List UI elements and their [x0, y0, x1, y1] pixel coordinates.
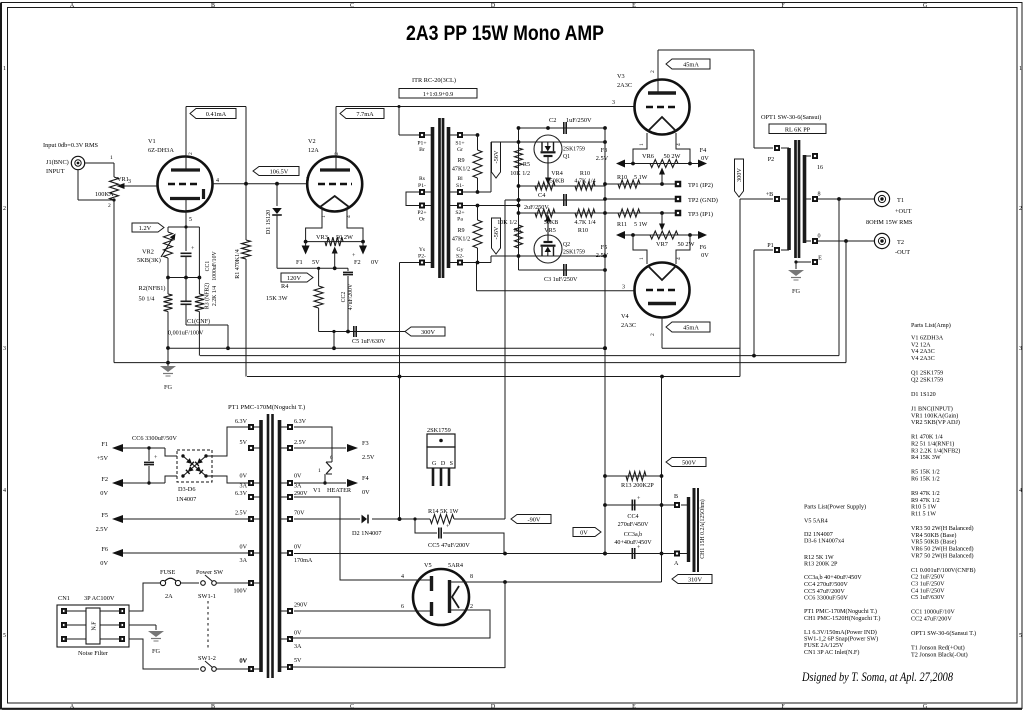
svg-text:FG: FG	[792, 288, 801, 295]
svg-text:RL 6K PP: RL 6K PP	[785, 127, 811, 134]
svg-text:5V: 5V	[312, 259, 320, 266]
svg-text:2A3 PP 15W Mono AMP: 2A3 PP 15W Mono AMP	[406, 21, 604, 45]
svg-text:C3 1uF/250V: C3 1uF/250V	[544, 277, 578, 283]
svg-text:A: A	[70, 704, 75, 710]
svg-text:VR5: VR5	[544, 228, 556, 234]
svg-text:-56V: -56V	[493, 226, 500, 239]
svg-text:FUSE: FUSE	[160, 569, 176, 576]
svg-text:VR3 50 2W(H Balanced): VR3 50 2W(H Balanced)	[911, 525, 974, 532]
svg-text:0V: 0V	[371, 259, 379, 266]
svg-text:F2: F2	[101, 476, 108, 483]
svg-text:5: 5	[1019, 633, 1022, 639]
svg-text:Or: Or	[419, 217, 425, 223]
svg-text:R3 2.2K 1/4(NFB2): R3 2.2K 1/4(NFB2)	[911, 447, 960, 454]
svg-text:2.5V: 2.5V	[235, 511, 248, 517]
svg-text:B: B	[211, 704, 215, 710]
svg-text:3A: 3A	[294, 484, 302, 490]
svg-text:R10: R10	[617, 175, 627, 181]
svg-text:2SK1759: 2SK1759	[563, 147, 585, 153]
svg-text:V1: V1	[313, 487, 321, 494]
svg-text:2A3C: 2A3C	[617, 82, 632, 89]
svg-text:V5 5AR4: V5 5AR4	[804, 518, 828, 524]
svg-text:R11 5 1W: R11 5 1W	[911, 512, 936, 518]
svg-text:1: 1	[3, 66, 6, 72]
svg-text:CC6 3300uF/50V: CC6 3300uF/50V	[132, 435, 177, 442]
svg-text:5: 5	[189, 217, 192, 223]
svg-text:A: A	[674, 561, 679, 567]
svg-text:VR6 50 2W(H Balanced): VR6 50 2W(H Balanced)	[911, 546, 974, 553]
svg-text:G D S: G D S	[432, 461, 455, 467]
svg-text:P2+: P2+	[417, 210, 426, 216]
svg-text:5: 5	[3, 633, 6, 639]
svg-text:Q1 2SK1759: Q1 2SK1759	[911, 371, 943, 377]
svg-text:290V: 290V	[294, 491, 308, 497]
svg-text:Br: Br	[419, 147, 425, 153]
svg-text:Ys: Ys	[419, 247, 426, 253]
svg-text:R10: R10	[580, 171, 590, 177]
svg-text:L1 6.3V/150mA(Power IND): L1 6.3V/150mA(Power IND)	[804, 629, 877, 636]
svg-text:6Z-DH3A: 6Z-DH3A	[148, 147, 174, 154]
svg-text:FUSE 2A/125V: FUSE 2A/125V	[804, 643, 844, 649]
svg-text:3: 3	[622, 285, 625, 291]
svg-text:15K 3W: 15K 3W	[266, 295, 288, 302]
svg-text:T2: T2	[897, 239, 904, 246]
svg-text:V1 6ZDH3A: V1 6ZDH3A	[911, 336, 944, 342]
svg-text:CC3a,b: CC3a,b	[624, 532, 642, 538]
svg-text:C4: C4	[538, 192, 546, 199]
svg-text:6.3V: 6.3V	[294, 419, 307, 425]
svg-text:270uF/450V: 270uF/450V	[618, 522, 649, 528]
svg-text:R9: R9	[457, 158, 464, 164]
svg-text:70V: 70V	[294, 511, 305, 517]
svg-text:T2 Jonson Black(-Out): T2 Jonson Black(-Out)	[911, 652, 968, 659]
svg-text:1: 1	[318, 468, 321, 474]
svg-text:0V: 0V	[701, 252, 709, 259]
svg-text:S1-: S1-	[456, 183, 464, 189]
svg-text:F3: F3	[601, 147, 608, 154]
svg-text:C1(CNF): C1(CNF)	[187, 318, 210, 325]
svg-text:2: 2	[470, 604, 473, 610]
svg-text:310V: 310V	[688, 576, 702, 583]
svg-text:V4 2A3C: V4 2A3C	[911, 356, 935, 362]
svg-text:CN1: CN1	[58, 595, 70, 602]
svg-text:16: 16	[817, 165, 823, 171]
svg-text:VR6: VR6	[642, 153, 654, 160]
svg-text:1N4007: 1N4007	[176, 496, 196, 503]
svg-text:E: E	[632, 3, 636, 9]
svg-text:D3-D6: D3-D6	[178, 486, 196, 493]
svg-text:Gr: Gr	[457, 147, 463, 153]
svg-text:+OUT: +OUT	[895, 208, 912, 215]
svg-text:P1: P1	[767, 243, 773, 249]
svg-text:CC3a,b 40+40uF/450V: CC3a,b 40+40uF/450V	[804, 575, 862, 581]
svg-text:VR1 100KA(Gain): VR1 100KA(Gain)	[911, 412, 958, 419]
svg-text:10K 1/2: 10K 1/2	[510, 171, 530, 177]
svg-text:1: 1	[321, 215, 327, 218]
svg-text:5V: 5V	[240, 440, 248, 446]
svg-text:0V: 0V	[240, 474, 248, 480]
svg-text:R10 5 1W: R10 5 1W	[911, 505, 936, 511]
svg-text:7.7mA: 7.7mA	[356, 111, 374, 118]
svg-text:2.2K 1/4: 2.2K 1/4	[212, 286, 218, 306]
svg-text:Rs: Rs	[419, 176, 426, 182]
svg-text:HEATER: HEATER	[327, 487, 352, 494]
svg-text:1: 1	[639, 257, 645, 260]
svg-text:R9 47K 1/2: R9 47K 1/2	[911, 498, 940, 504]
svg-text:-56V: -56V	[493, 150, 500, 163]
svg-text:4: 4	[3, 488, 6, 494]
svg-text:2A: 2A	[165, 593, 173, 600]
svg-text:PT1 PMC-170M(Noguchi T.): PT1 PMC-170M(Noguchi T.)	[804, 608, 877, 615]
svg-text:Bl: Bl	[457, 176, 463, 182]
svg-text:4: 4	[676, 143, 682, 146]
svg-text:CC5 47uF/200V: CC5 47uF/200V	[428, 542, 470, 549]
svg-text:8: 8	[470, 574, 473, 580]
svg-text:C4 1uF/250V: C4 1uF/250V	[911, 588, 945, 594]
svg-text:A: A	[70, 3, 75, 9]
svg-text:2SK1759: 2SK1759	[427, 427, 451, 434]
svg-text:P2: P2	[768, 157, 774, 163]
svg-text:D: D	[491, 704, 496, 710]
svg-text:F3: F3	[362, 440, 369, 447]
svg-text:3A: 3A	[294, 644, 302, 650]
svg-text:VR2 5KB(VP ADJ): VR2 5KB(VP ADJ)	[911, 419, 960, 426]
svg-text:N.F: N.F	[92, 621, 98, 631]
svg-text:10K 1/2: 10K 1/2	[497, 220, 517, 226]
svg-text:0V: 0V	[294, 474, 302, 480]
svg-text:V4: V4	[621, 313, 630, 320]
svg-text:CN1 3P AC Inlet(N.F): CN1 3P AC Inlet(N.F)	[804, 649, 859, 656]
svg-text:R1 470K 1/4: R1 470K 1/4	[911, 435, 943, 441]
svg-text:SW1-1,2 6P Snap(Power SW): SW1-1,2 6P Snap(Power SW)	[804, 636, 878, 643]
svg-text:0V: 0V	[240, 545, 248, 551]
svg-text:VR7: VR7	[656, 241, 668, 248]
svg-text:R3 (NFB2): R3 (NFB2)	[204, 283, 211, 309]
svg-text:C: C	[350, 704, 354, 710]
svg-text:3P AC100V: 3P AC100V	[84, 595, 115, 602]
svg-text:4: 4	[346, 215, 352, 218]
svg-text:-OUT: -OUT	[895, 249, 910, 256]
svg-text:R10: R10	[578, 228, 588, 234]
svg-text:S2+: S2+	[455, 210, 464, 216]
svg-text:106.5V: 106.5V	[270, 168, 289, 175]
svg-text:V4 2A3C: V4 2A3C	[911, 349, 935, 355]
svg-text:F1: F1	[101, 441, 108, 448]
svg-text:R11: R11	[617, 222, 627, 228]
svg-text:TP3 (IP1): TP3 (IP1)	[688, 211, 713, 218]
svg-text:C3 1uF/250V: C3 1uF/250V	[911, 582, 945, 588]
svg-text:G: G	[923, 704, 928, 710]
svg-text:2SK1759: 2SK1759	[563, 250, 585, 256]
svg-text:Q2 2SK1759: Q2 2SK1759	[911, 377, 943, 383]
svg-text:8: 8	[817, 192, 820, 198]
svg-text:47K1/2: 47K1/2	[452, 237, 470, 243]
svg-text:VR3: VR3	[316, 234, 328, 241]
svg-text:E: E	[818, 256, 822, 262]
svg-text:50 2W: 50 2W	[336, 234, 353, 241]
svg-text:3A: 3A	[240, 484, 248, 490]
svg-text:P1-: P1-	[418, 183, 426, 189]
svg-text:P1+: P1+	[417, 141, 426, 147]
svg-text:2.5V: 2.5V	[294, 440, 307, 446]
svg-text:VR4 50KB (Base): VR4 50KB (Base)	[911, 532, 956, 539]
svg-text:100V: 100V	[233, 589, 247, 595]
svg-text:2.5V: 2.5V	[362, 454, 375, 461]
svg-text:0,001uF/100V: 0,001uF/100V	[168, 331, 204, 337]
svg-text:Gy: Gy	[457, 247, 464, 253]
svg-text:V2 12A: V2 12A	[911, 342, 931, 348]
svg-text:50 1/4: 50 1/4	[139, 296, 156, 303]
svg-text:Dsigned by T. Soma, at Apl. 27: Dsigned by T. Soma, at Apl. 27,2008	[801, 669, 953, 684]
svg-text:R2 51 1/4(RNF1): R2 51 1/4(RNF1)	[911, 441, 954, 448]
svg-text:V2: V2	[308, 138, 316, 145]
svg-text:3A: 3A	[240, 558, 248, 564]
svg-text:R6 15K 1/2: R6 15K 1/2	[911, 477, 940, 483]
svg-text:T1 Jonson Red(+Out): T1 Jonson Red(+Out)	[911, 645, 965, 652]
svg-text:INPUT: INPUT	[46, 168, 65, 175]
svg-text:0.41mA: 0.41mA	[206, 111, 227, 118]
svg-text:2A3C: 2A3C	[621, 322, 636, 329]
svg-text:CC1: CC1	[205, 261, 211, 272]
svg-text:1: 1	[1019, 66, 1022, 72]
svg-text:R14 5K 1W: R14 5K 1W	[428, 508, 458, 515]
svg-text:5 1W: 5 1W	[634, 175, 648, 181]
svg-text:0V: 0V	[362, 489, 370, 496]
svg-text:CC2 47uF/200V: CC2 47uF/200V	[911, 617, 952, 623]
svg-text:47K1/2: 47K1/2	[452, 167, 470, 173]
svg-text:VR7 50 2W(H Balanced): VR7 50 2W(H Balanced)	[911, 552, 974, 559]
svg-text:120V: 120V	[287, 275, 301, 282]
svg-text:5 1W: 5 1W	[634, 222, 648, 228]
svg-text:F4: F4	[700, 147, 708, 154]
svg-text:5V: 5V	[294, 658, 302, 664]
svg-text:E: E	[632, 704, 636, 710]
svg-text:T1: T1	[897, 197, 904, 204]
svg-text:CC6 3300uF/50V: CC6 3300uF/50V	[804, 596, 848, 602]
svg-text:50 2W: 50 2W	[678, 241, 695, 248]
svg-text:4: 4	[401, 574, 404, 580]
svg-text:Power SW: Power SW	[196, 569, 223, 576]
svg-text:PT1 PMC-170M(Noguchi T.): PT1 PMC-170M(Noguchi T.)	[228, 404, 305, 411]
svg-text:2.5V: 2.5V	[596, 252, 609, 259]
svg-text:2: 2	[650, 333, 656, 336]
svg-text:SW1-1: SW1-1	[198, 593, 216, 600]
svg-text:R13 200K 2P: R13 200K 2P	[804, 562, 838, 568]
svg-text:50 2W: 50 2W	[664, 153, 681, 160]
svg-text:1+1:0.9+0.9: 1+1:0.9+0.9	[423, 91, 453, 98]
svg-text:6: 6	[401, 604, 404, 610]
svg-text:CC4: CC4	[627, 514, 638, 520]
svg-text:40+40uF/450V: 40+40uF/450V	[614, 540, 652, 546]
svg-text:1.2V: 1.2V	[139, 225, 152, 232]
svg-text:S2-: S2-	[456, 254, 464, 260]
svg-text:2.5V: 2.5V	[596, 155, 609, 162]
svg-text:VR2: VR2	[142, 249, 154, 256]
svg-text:5AR4: 5AR4	[448, 562, 464, 569]
svg-text:4: 4	[1019, 488, 1022, 494]
svg-text:Input 0db=0.3V RMS: Input 0db=0.3V RMS	[43, 142, 99, 149]
svg-text:R9 47K 1/2: R9 47K 1/2	[911, 491, 940, 497]
svg-text:V1: V1	[148, 138, 156, 145]
svg-text:F5: F5	[601, 244, 608, 251]
svg-text:3: 3	[1019, 346, 1022, 352]
svg-text:F6: F6	[101, 546, 108, 553]
svg-text:300V: 300V	[736, 168, 743, 182]
svg-text:B: B	[211, 3, 215, 9]
svg-text:1000uF/10V: 1000uF/10V	[212, 251, 218, 281]
svg-text:50KB: 50KB	[544, 220, 559, 226]
svg-text:Q2: Q2	[563, 242, 570, 248]
svg-text:4.7K 1/4: 4.7K 1/4	[574, 179, 595, 185]
svg-text:0V: 0V	[100, 490, 108, 497]
svg-text:2: 2	[3, 206, 6, 212]
svg-text:2: 2	[650, 70, 656, 73]
svg-text:5KB(3K): 5KB(3K)	[137, 257, 161, 264]
svg-text:FG: FG	[164, 384, 173, 391]
svg-text:12A: 12A	[308, 147, 319, 154]
svg-text:P2-: P2-	[418, 254, 426, 260]
svg-text:3: 3	[612, 100, 615, 106]
svg-text:4.7K 1/4: 4.7K 1/4	[574, 220, 595, 226]
svg-text:VR4: VR4	[551, 171, 563, 177]
svg-text:170mA: 170mA	[294, 558, 313, 564]
svg-text:+5V: +5V	[97, 455, 109, 462]
svg-text:B: B	[674, 494, 678, 500]
svg-text:CC4 270uF/500V: CC4 270uF/500V	[804, 582, 848, 588]
svg-text:C5 1uF/630V: C5 1uF/630V	[911, 595, 945, 601]
svg-text:+B: +B	[766, 192, 774, 198]
svg-text:Pa: Pa	[457, 217, 463, 223]
svg-text:0V: 0V	[701, 155, 709, 162]
svg-text:CH1 PMC-1520H(Noguchi T.): CH1 PMC-1520H(Noguchi T.)	[804, 615, 880, 622]
svg-text:R2(NFB1): R2(NFB1)	[139, 285, 166, 292]
svg-text:1: 1	[110, 155, 113, 161]
svg-text:0V: 0V	[100, 560, 108, 567]
svg-text:3: 3	[3, 346, 6, 352]
svg-text:3: 3	[306, 177, 309, 183]
svg-text:R1 470K1/4: R1 470K1/4	[235, 249, 241, 279]
svg-text:0V: 0V	[240, 659, 248, 665]
svg-text:2: 2	[188, 152, 194, 155]
svg-text:G: G	[923, 3, 928, 9]
svg-text:C2: C2	[549, 117, 556, 124]
svg-text:FG: FG	[152, 648, 161, 655]
svg-text:Parts List(Power Supply): Parts List(Power Supply)	[804, 504, 866, 511]
svg-text:45mA: 45mA	[683, 324, 699, 331]
svg-text:C1 0.001uF/100V(CNFB): C1 0.001uF/100V(CNFB)	[911, 567, 976, 574]
svg-text:R5: R5	[523, 162, 530, 168]
svg-text:2: 2	[334, 152, 340, 155]
svg-text:0V: 0V	[294, 631, 302, 637]
svg-text:50KB: 50KB	[550, 179, 565, 185]
svg-text:D: D	[491, 3, 496, 9]
svg-text:J1(BNC): J1(BNC)	[46, 159, 69, 166]
svg-text:0: 0	[817, 234, 820, 240]
svg-text:SW1-2: SW1-2	[198, 655, 216, 662]
svg-text:R12 5K 1W: R12 5K 1W	[804, 555, 834, 561]
svg-text:C2 1uF/250V: C2 1uF/250V	[911, 575, 945, 581]
svg-text:F6: F6	[700, 244, 707, 251]
svg-text:6: 6	[330, 455, 333, 461]
svg-text:V3: V3	[617, 73, 625, 80]
svg-text:OPT1 SW-30-6(Sansui T.): OPT1 SW-30-6(Sansui T.)	[911, 630, 976, 637]
svg-text:4: 4	[676, 257, 682, 260]
svg-text:47uF/200V: 47uF/200V	[348, 283, 354, 310]
svg-text:F1: F1	[296, 259, 303, 266]
svg-text:45mA: 45mA	[683, 61, 699, 68]
svg-text:R5 15K 1/2: R5 15K 1/2	[911, 470, 940, 476]
svg-text:Noise Filter: Noise Filter	[78, 650, 109, 657]
svg-text:2: 2	[108, 203, 111, 209]
svg-text:F5: F5	[101, 512, 108, 519]
svg-text:0V: 0V	[294, 545, 302, 551]
svg-text:CH1 15H 0.2A(125Ohm): CH1 15H 0.2A(125Ohm)	[699, 499, 706, 558]
svg-text:6.3V: 6.3V	[235, 491, 248, 497]
svg-text:J1 BNC(INPUT): J1 BNC(INPUT)	[911, 406, 953, 413]
svg-text:OPT1 SW-30-6(Sansui): OPT1 SW-30-6(Sansui)	[761, 114, 821, 121]
svg-text:TP1 (IP2): TP1 (IP2)	[688, 182, 713, 189]
svg-text:1uF/250V: 1uF/250V	[566, 117, 592, 124]
svg-text:R9: R9	[457, 228, 464, 234]
svg-text:CC1 1000uF/10V: CC1 1000uF/10V	[911, 610, 955, 616]
svg-text:2uF/250V: 2uF/250V	[524, 205, 549, 211]
svg-text:Parts List(Amp): Parts List(Amp)	[911, 322, 951, 329]
svg-text:TP2 (GND): TP2 (GND)	[688, 197, 718, 204]
svg-text:100KA: 100KA	[95, 191, 114, 198]
svg-text:-90V: -90V	[528, 516, 541, 523]
svg-text:2.5V: 2.5V	[96, 526, 109, 533]
svg-text:3: 3	[128, 179, 131, 185]
svg-text:300V: 300V	[421, 329, 435, 336]
svg-text:0V: 0V	[580, 529, 588, 536]
svg-text:S1+: S1+	[455, 141, 464, 147]
svg-text:V5: V5	[424, 562, 432, 569]
svg-text:Q1: Q1	[563, 154, 570, 160]
svg-text:8OHM 15W RMS: 8OHM 15W RMS	[866, 219, 913, 226]
svg-text:D1 1S120: D1 1S120	[911, 392, 936, 398]
svg-text:R13 200K2P: R13 200K2P	[621, 482, 654, 489]
svg-text:4: 4	[216, 178, 219, 184]
svg-text:290V: 290V	[294, 603, 308, 609]
svg-text:D3-6 1N4007x4: D3-6 1N4007x4	[804, 539, 844, 545]
svg-text:CC5 47uF/200V: CC5 47uF/200V	[804, 589, 845, 595]
svg-text:D2 1N4007: D2 1N4007	[352, 530, 382, 537]
svg-text:C5 1uF/630V: C5 1uF/630V	[352, 339, 386, 345]
svg-text:VR5 50KB (Base): VR5 50KB (Base)	[911, 539, 956, 546]
svg-text:D2 1N4007: D2 1N4007	[804, 532, 833, 538]
svg-text:F4: F4	[362, 475, 370, 482]
svg-text:1: 1	[639, 143, 645, 146]
svg-text:F2: F2	[354, 259, 361, 266]
svg-text:C: C	[350, 3, 354, 9]
svg-text:D1 1S120: D1 1S120	[266, 210, 272, 234]
svg-text:R4 15K 3W: R4 15K 3W	[911, 455, 941, 461]
svg-text:6.3V: 6.3V	[235, 419, 248, 425]
svg-text:2: 2	[1019, 206, 1022, 212]
svg-text:ITR RC-20(3CL): ITR RC-20(3CL)	[412, 77, 456, 84]
svg-text:R4: R4	[281, 283, 289, 290]
svg-text:500V: 500V	[682, 459, 696, 466]
svg-text:CC2: CC2	[341, 292, 347, 303]
